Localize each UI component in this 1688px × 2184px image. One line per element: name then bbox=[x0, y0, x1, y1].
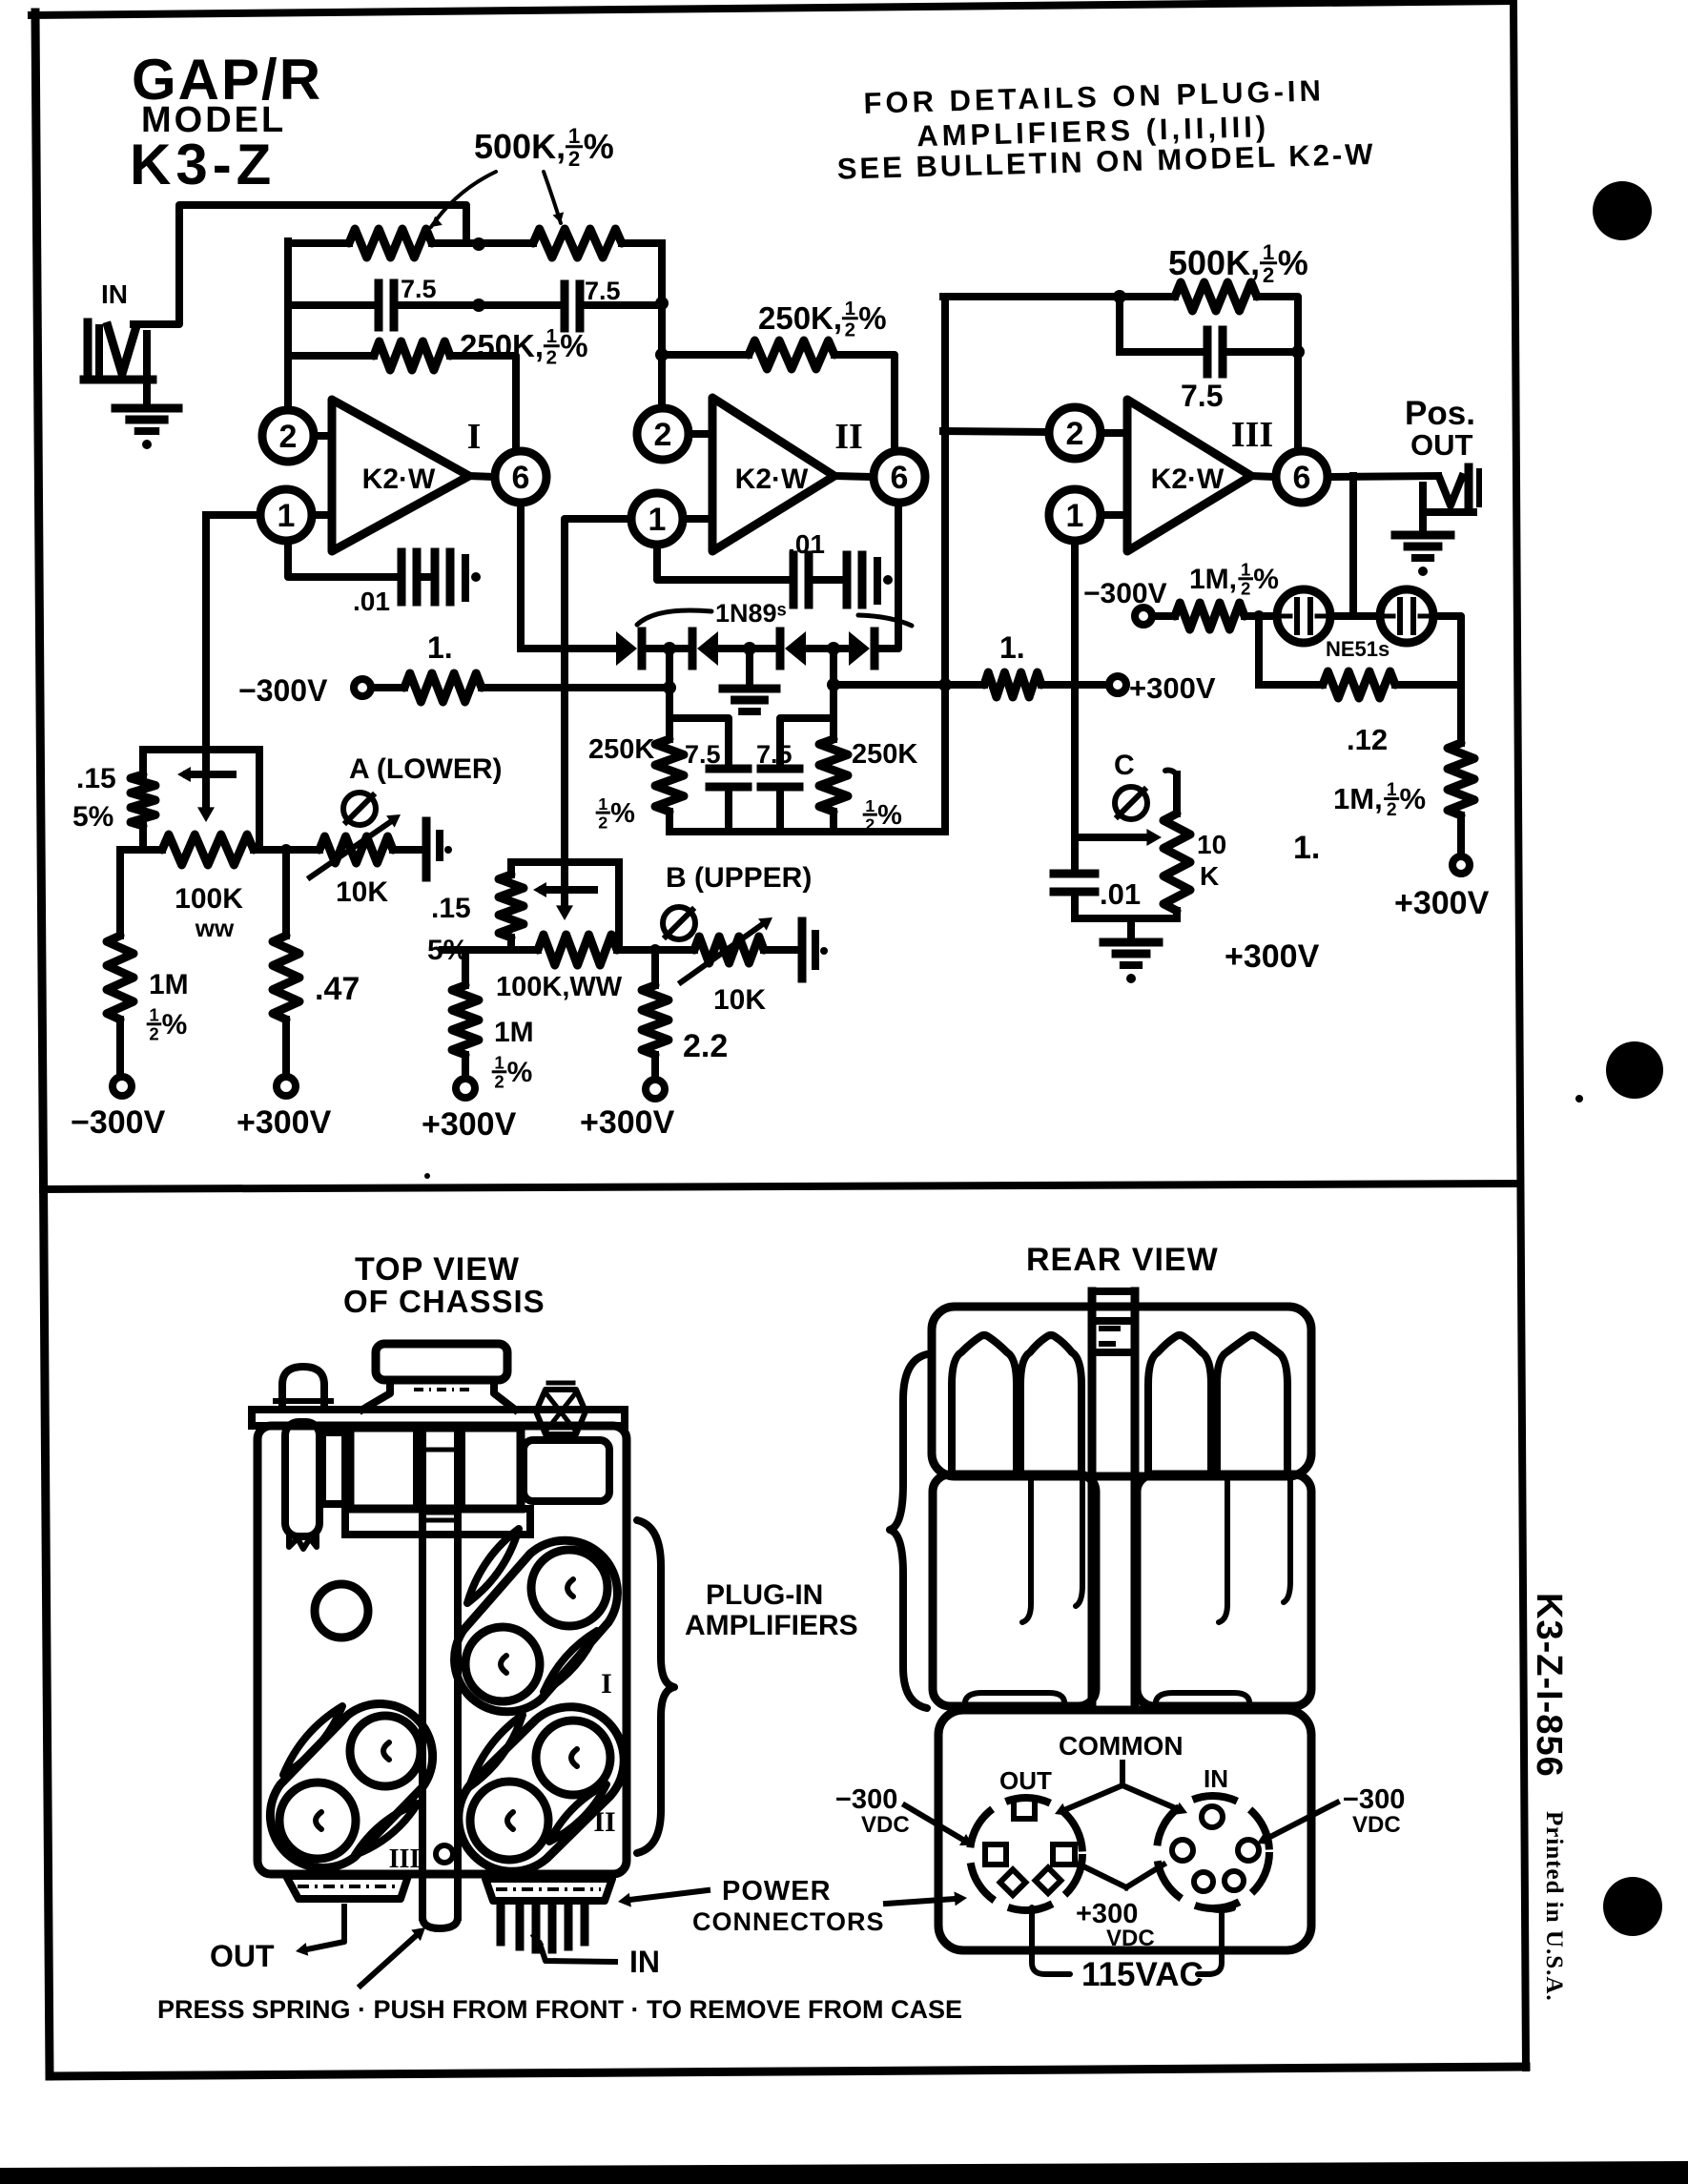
common arrow stem bbox=[1120, 1762, 1125, 1785]
wire node D down to C7 bbox=[1116, 297, 1123, 352]
wire A2 to C9 bbox=[393, 846, 422, 854]
svg-text:A (LOWER): A (LOWER) bbox=[349, 753, 503, 785]
svg-text:1: 1 bbox=[278, 498, 296, 534]
svg-text:K2·W: K2·W bbox=[1151, 464, 1225, 495]
svg-text:IN: IN bbox=[1204, 1764, 1228, 1793]
rear connector plate bbox=[938, 1710, 1311, 1950]
svg-text:.01: .01 bbox=[353, 587, 390, 616]
wire 250K row left bbox=[288, 352, 374, 360]
punch dot top right bbox=[1593, 181, 1652, 240]
capacitor C5 7.5 bbox=[761, 765, 799, 773]
chassis top plate bbox=[252, 1410, 625, 1426]
svg-text:Printed in U.S.A.: Printed in U.S.A. bbox=[1541, 1811, 1567, 2002]
swash left of 1N89s bbox=[637, 610, 711, 625]
svg-text:2: 2 bbox=[279, 419, 298, 455]
svg-text:+300V: +300V bbox=[1394, 885, 1490, 921]
wire node D to R9 bbox=[1120, 293, 1175, 300]
wire cap row left bbox=[288, 301, 376, 309]
wire R7 to +300V terminal bbox=[1041, 681, 1109, 689]
svg-text:1M,: 1M, bbox=[1333, 782, 1383, 815]
wire C5 to bottom row bbox=[776, 791, 784, 832]
svg-text:1: 1 bbox=[845, 298, 855, 319]
svg-text:−300: −300 bbox=[835, 1784, 897, 1815]
wire 1M junction down bbox=[1255, 616, 1263, 685]
chassis body bbox=[257, 1426, 627, 1874]
chassis top cap bbox=[376, 1344, 507, 1380]
scan border left edge bbox=[35, 12, 50, 2076]
svg-text:1: 1 bbox=[149, 1005, 158, 1025]
IN leader bbox=[540, 1944, 615, 1962]
diode D4 1N89 bbox=[849, 631, 870, 666]
svg-text:NE51s: NE51s bbox=[1326, 637, 1390, 661]
wire pin2 row amp III bbox=[943, 431, 1048, 432]
node A junction bbox=[472, 237, 485, 251]
terminal 2 of U3 bbox=[1101, 429, 1127, 437]
svg-text:II: II bbox=[593, 1806, 615, 1838]
wire node B to C2 bbox=[479, 301, 562, 309]
wire B-pot arrow bbox=[556, 905, 573, 920]
diode D3 1N89 bbox=[776, 631, 785, 666]
svg-text:K2·W: K2·W bbox=[735, 464, 809, 495]
wire right bus up to amp III bbox=[941, 297, 949, 832]
chassis hole circle bbox=[315, 1584, 368, 1638]
spring arrow bbox=[360, 1934, 418, 1986]
capacitor C2 7.5 bbox=[561, 284, 569, 328]
wire pot C arrow bbox=[1075, 834, 1144, 841]
wire R6 to bottom row bbox=[830, 812, 837, 832]
wire C7 to corner bbox=[1223, 348, 1298, 356]
common arrow right bbox=[1122, 1785, 1178, 1809]
wire -300V to R4 bbox=[371, 684, 404, 691]
terminal 6 of U1 bbox=[469, 476, 494, 477]
wire right bus amp I-II bbox=[658, 243, 666, 409]
wire R9 to corner down bbox=[1257, 297, 1298, 449]
svg-text:1: 1 bbox=[546, 325, 557, 347]
diode D2 1N89 bbox=[689, 631, 697, 666]
rear tube 2 bbox=[1020, 1335, 1081, 1474]
terminal +300V bottom 2 bbox=[456, 1079, 475, 1098]
svg-text:%: % bbox=[560, 328, 587, 363]
common arrow left bbox=[1064, 1785, 1122, 1810]
capacitor C8 .01 bbox=[1054, 870, 1095, 878]
terminal 1 of U1 bbox=[312, 511, 332, 519]
wire node C to R8 bbox=[662, 351, 749, 359]
B row bbox=[443, 946, 538, 954]
chassis cap neck bbox=[362, 1380, 390, 1410]
IN connector pins bbox=[497, 1902, 505, 1942]
wire R16 to row bbox=[507, 937, 515, 950]
resistor R3 250K amp I feedback bbox=[374, 341, 450, 370]
rear connector OUT circle bbox=[970, 1798, 1082, 1910]
terminal 6 of U2 bbox=[834, 476, 873, 477]
wire B loop left down bbox=[507, 862, 515, 875]
IN pin bottom 1 bbox=[1194, 1872, 1213, 1891]
svg-text:10K: 10K bbox=[713, 984, 766, 1016]
svg-text:+300V: +300V bbox=[1129, 671, 1216, 705]
junction bus at +300V row bbox=[938, 678, 952, 691]
svg-text:%: % bbox=[507, 1057, 533, 1088]
svg-text:POWER: POWER bbox=[722, 1876, 832, 1906]
terminal -300V right bbox=[1135, 608, 1152, 625]
svg-text:6: 6 bbox=[512, 460, 530, 496]
svg-text:1M: 1M bbox=[149, 969, 189, 1000]
wire bridge bottom row bbox=[669, 828, 945, 835]
wire R10 to NE1 bbox=[1245, 612, 1277, 620]
module tube lines left bbox=[1022, 1474, 1031, 1622]
svg-text:2.2: 2.2 bbox=[683, 1028, 728, 1064]
tube V1 (amp I) bbox=[531, 1550, 607, 1626]
wire output down to neon row bbox=[1349, 476, 1357, 616]
svg-text:%: % bbox=[877, 800, 902, 831]
capacitor C10 trim bbox=[798, 921, 807, 979]
tube V4 (amp II) bbox=[470, 1782, 548, 1860]
svg-text:7.5: 7.5 bbox=[685, 740, 721, 769]
wire R5 to bottom row bbox=[666, 812, 673, 832]
rear tube 4 bbox=[1217, 1335, 1287, 1474]
resistor R2 500K top right bbox=[533, 229, 622, 258]
arrow through B2 bbox=[681, 923, 764, 982]
resistor R11 .12 bbox=[1323, 671, 1395, 698]
ground at input bbox=[143, 380, 151, 404]
svg-text:.15: .15 bbox=[431, 893, 471, 924]
wire top row segment bbox=[288, 239, 349, 247]
+300 VDC V lines bbox=[1080, 1865, 1126, 1887]
wire A loop left down bbox=[139, 750, 147, 774]
junction bus at pin2 row bbox=[939, 425, 951, 437]
svg-text:7.5: 7.5 bbox=[1181, 379, 1223, 413]
svg-text:K3-Z-I-856: K3-Z-I-856 bbox=[1529, 1593, 1569, 1778]
punch dot middle right bbox=[1606, 1041, 1663, 1099]
wire D1D2 leg down bbox=[666, 655, 673, 739]
tube V5 (amp III) bbox=[350, 1716, 421, 1786]
wire A row right bbox=[254, 846, 319, 854]
svg-text:.01: .01 bbox=[1100, 877, 1141, 911]
capacitor C6 .01 amp II bbox=[790, 555, 798, 605]
svg-text:5%: 5% bbox=[72, 801, 113, 833]
terminal 1 of U2 bbox=[683, 515, 712, 523]
svg-text:1: 1 bbox=[598, 794, 607, 814]
terminal 2 of U1 bbox=[314, 432, 332, 440]
frame bottom edge bbox=[50, 2067, 1526, 2076]
svg-text:TOP VIEW: TOP VIEW bbox=[355, 1251, 520, 1288]
svg-text:2: 2 bbox=[654, 417, 672, 453]
pot A zero symbol bbox=[343, 793, 376, 825]
wire C1 to node B bbox=[394, 301, 479, 309]
wire R13 to row bbox=[139, 826, 147, 850]
arrow -300 right bbox=[1266, 1803, 1337, 1839]
wire U2 pin1 to .01 row bbox=[657, 545, 791, 580]
diode D1 1N89 bbox=[616, 631, 637, 666]
wire R3 to corner bbox=[450, 356, 516, 449]
resistor R18 2.2 bbox=[651, 950, 659, 985]
wire NE1 to NE2 bbox=[1330, 612, 1380, 620]
ground at output bbox=[1419, 512, 1427, 532]
wire C4 to bottom row bbox=[725, 791, 732, 832]
leader to R2 bbox=[544, 172, 561, 223]
svg-text:2: 2 bbox=[494, 1072, 504, 1092]
IN pin bottom 2 bbox=[1225, 1871, 1244, 1890]
svg-text:PLUG-IN: PLUG-IN bbox=[706, 1579, 823, 1611]
rear tube 1 bbox=[952, 1335, 1017, 1474]
junction D3-D4 bbox=[827, 642, 840, 655]
B loop top bar bbox=[511, 858, 619, 866]
svg-text:10: 10 bbox=[1197, 830, 1226, 859]
svg-text:1: 1 bbox=[494, 1053, 504, 1073]
tube V3 (amp II) bbox=[536, 1720, 610, 1795]
junction at D3D4 leg bbox=[827, 678, 840, 691]
wire A loop right down bbox=[256, 750, 263, 850]
spring rod bbox=[285, 1422, 319, 1536]
resistor R10 1M half pct bbox=[1175, 603, 1245, 629]
svg-text:.01: .01 bbox=[788, 529, 825, 559]
ground below C pot bbox=[1127, 918, 1135, 938]
svg-text:C: C bbox=[1114, 750, 1135, 781]
resistor R4 1meg (-300V feed) bbox=[404, 673, 482, 702]
rear module right bbox=[1137, 1474, 1311, 1706]
svg-text:2: 2 bbox=[1241, 579, 1250, 599]
svg-text:COMMON: COMMON bbox=[1059, 1731, 1184, 1761]
svg-text:.12: .12 bbox=[1347, 723, 1388, 756]
resistor R7 1meg (+300V feed) bbox=[984, 672, 1041, 697]
svg-text:OUT: OUT bbox=[210, 1939, 275, 1973]
svg-text:+300V: +300V bbox=[580, 1104, 675, 1141]
capacitor C4 7.5 bbox=[710, 765, 748, 773]
wiper arrow A (left) bbox=[187, 771, 233, 778]
svg-text:IN: IN bbox=[629, 1945, 660, 1979]
resistor R6 250K half pct bbox=[819, 739, 848, 812]
svg-text:−300: −300 bbox=[1343, 1784, 1405, 1815]
wire to R10 bbox=[1152, 612, 1175, 620]
tube cluster I outline bbox=[455, 1540, 618, 1712]
wire R11 to right leg bbox=[1395, 681, 1461, 689]
svg-text:.15: .15 bbox=[76, 763, 116, 794]
svg-text:1: 1 bbox=[1387, 780, 1397, 800]
wire C8 bottom row bbox=[1071, 896, 1079, 918]
resistor R5 250K half pct bbox=[655, 739, 684, 812]
speck near divider bbox=[424, 1173, 430, 1179]
svg-text:2: 2 bbox=[1387, 800, 1397, 820]
junction at 1M output bbox=[1253, 610, 1265, 622]
svg-text:ww: ww bbox=[195, 914, 235, 942]
IN socket plate bbox=[485, 1879, 612, 1901]
clip bar hole bbox=[436, 1845, 453, 1863]
wire left bus amp I bbox=[284, 241, 292, 410]
svg-text:7.5: 7.5 bbox=[585, 277, 621, 305]
junction -300V row to diode leg bbox=[663, 681, 676, 694]
svg-text:%: % bbox=[1278, 243, 1308, 282]
wire U1 pin6 down bbox=[517, 504, 525, 649]
OUT leader arrow bbox=[307, 1906, 344, 1949]
wire to D2 bbox=[669, 645, 692, 652]
svg-text:Pos.: Pos. bbox=[1405, 395, 1475, 432]
junction A row at R15 bbox=[280, 844, 292, 855]
svg-text:III: III bbox=[1231, 415, 1273, 455]
divider line between schematic and views bbox=[43, 1184, 1518, 1189]
op-amp U1 K2-W I bbox=[332, 400, 469, 551]
svg-text:−300V: −300V bbox=[71, 1104, 166, 1141]
arrow power to top view bbox=[629, 1890, 708, 1900]
svg-text:+300V: +300V bbox=[422, 1106, 517, 1143]
IN pin left bbox=[1172, 1840, 1193, 1861]
svg-text:VDC: VDC bbox=[1106, 1926, 1155, 1951]
svg-text:1.: 1. bbox=[999, 630, 1025, 665]
wire C7 row bbox=[1120, 348, 1204, 356]
svg-text:1N89ˢ: 1N89ˢ bbox=[715, 599, 787, 628]
tube V2 (amp I) bbox=[465, 1627, 540, 1701]
svg-text:PRESS SPRING · PUSH FROM FRONT: PRESS SPRING · PUSH FROM FRONT · TO REMO… bbox=[157, 1995, 962, 2024]
svg-text:%: % bbox=[1253, 564, 1279, 595]
wire R1 to node A bbox=[432, 239, 479, 247]
terminal +300V bottom 1 bbox=[277, 1077, 296, 1096]
wire pin6 to D1 bbox=[521, 645, 616, 652]
wiper arrow B (left) bbox=[543, 886, 594, 894]
frame right edge bbox=[1513, 1, 1526, 2068]
junction diode center bbox=[743, 642, 756, 655]
resistor R14 1M half pct bbox=[116, 850, 124, 936]
terminal 6 of U3 bbox=[1251, 476, 1274, 477]
junction D1-D2 bbox=[663, 642, 676, 655]
pot C zero symbol bbox=[1115, 787, 1147, 819]
svg-text:2: 2 bbox=[1263, 263, 1274, 287]
punch dot bottom right bbox=[1603, 1877, 1662, 1936]
svg-text:250K,: 250K, bbox=[758, 300, 842, 336]
swash right of 1N89s bbox=[858, 615, 912, 626]
svg-text:%: % bbox=[584, 127, 614, 166]
svg-text:500K,: 500K, bbox=[1168, 243, 1260, 282]
svg-text:IN: IN bbox=[101, 279, 128, 309]
svg-text:+300V: +300V bbox=[1225, 938, 1320, 975]
rear connector IN circle bbox=[1157, 1796, 1269, 1908]
terminal +300V mid bbox=[1109, 676, 1126, 693]
svg-text:100K,WW: 100K,WW bbox=[496, 972, 623, 1002]
tube cluster II outline bbox=[459, 1707, 624, 1872]
wire U2 pin1 to B-pot bus bbox=[565, 519, 630, 908]
svg-text:10K: 10K bbox=[336, 876, 388, 908]
svg-text:1: 1 bbox=[1241, 560, 1250, 580]
svg-text:+300V: +300V bbox=[237, 1104, 332, 1141]
output jack J2 bbox=[1439, 477, 1462, 505]
bottom scan black band bbox=[0, 2161, 1688, 2184]
resistor R17 1M half pct bbox=[462, 950, 469, 985]
terminal 2 of U2 bbox=[689, 430, 712, 438]
rheostat A2 10K bbox=[319, 836, 393, 863]
clip bar bbox=[419, 1426, 426, 1917]
potentiometer B 100K WW bbox=[538, 935, 617, 965]
svg-text:1.: 1. bbox=[427, 630, 453, 665]
svg-text:OUT: OUT bbox=[1410, 428, 1473, 462]
op-amp U3 K2-W III bbox=[1127, 400, 1251, 551]
neon lamp NE1 NE51 bbox=[1277, 589, 1330, 643]
resistor R13 .15 5pct bbox=[131, 774, 155, 826]
OUT socket plate bbox=[286, 1876, 408, 1899]
rear tube 3 bbox=[1148, 1335, 1211, 1474]
neon lamp NE2 NE51 bbox=[1380, 589, 1433, 643]
svg-text:I: I bbox=[467, 417, 482, 457]
terminal +300V bottom 3 bbox=[646, 1080, 665, 1099]
wire bus corner to node D bbox=[943, 293, 1120, 300]
potentiometer A 100K WW bbox=[162, 834, 254, 865]
wire R2 to right bus bbox=[622, 239, 662, 247]
node D junction bbox=[1113, 290, 1126, 303]
stub to C4 bbox=[669, 718, 729, 764]
svg-text:OF CHASSIS: OF CHASSIS bbox=[343, 1284, 546, 1319]
resistor R15 .47 bbox=[282, 850, 290, 936]
svg-text:K2·W: K2·W bbox=[362, 464, 436, 495]
IN pin right bbox=[1238, 1840, 1259, 1861]
svg-text:2: 2 bbox=[546, 346, 557, 368]
svg-text:VDC: VDC bbox=[861, 1812, 910, 1838]
svg-text:1: 1 bbox=[1263, 240, 1274, 264]
resistor R1 500K top left bbox=[349, 229, 432, 258]
svg-text:VDC: VDC bbox=[1352, 1812, 1401, 1838]
svg-text:REAR VIEW: REAR VIEW bbox=[1026, 1242, 1219, 1278]
svg-text:2: 2 bbox=[568, 147, 580, 171]
brace right of top view bbox=[637, 1520, 674, 1853]
wire B2 to C10 bbox=[764, 946, 799, 954]
module tube lines right bbox=[1219, 1474, 1227, 1622]
junction B row at R18 bbox=[649, 944, 661, 956]
svg-text:−300V: −300V bbox=[238, 673, 328, 708]
rear case top bbox=[932, 1307, 1311, 1476]
leader to R1 bbox=[431, 172, 496, 227]
svg-text:II: II bbox=[834, 417, 863, 457]
svg-text:1: 1 bbox=[865, 796, 875, 815]
115VAC left line bbox=[1032, 1907, 1070, 1974]
svg-text:%: % bbox=[162, 1009, 188, 1040]
wire R8 to U2 pin6 leg bbox=[834, 355, 895, 449]
svg-text:6: 6 bbox=[891, 460, 909, 496]
input jack J1 bbox=[84, 322, 93, 380]
resistor R12 1M half pct vertical bbox=[1448, 743, 1474, 815]
frame top edge bbox=[31, 1, 1512, 15]
svg-text:250K: 250K bbox=[852, 739, 917, 770]
rear module left bbox=[933, 1474, 1096, 1706]
A loop top bar bbox=[143, 746, 259, 753]
svg-text:2: 2 bbox=[845, 319, 855, 340]
svg-text:1: 1 bbox=[648, 502, 667, 538]
pot B zero symbol bbox=[663, 907, 695, 939]
capacitor C3 .01 amp I bbox=[398, 552, 406, 602]
wire D4 to amp II output leg bbox=[875, 505, 898, 649]
svg-text:%: % bbox=[858, 300, 886, 336]
wire B loop right down bbox=[615, 862, 623, 950]
svg-text:I: I bbox=[601, 1668, 612, 1700]
header block tilt group bbox=[834, 72, 1375, 186]
wire U3 pin6 to output jack bbox=[1329, 476, 1438, 477]
trimmer stub amp II bbox=[874, 561, 881, 601]
terminal -300V left bbox=[354, 679, 371, 696]
wire C2 to right bus bbox=[580, 301, 662, 309]
svg-text:B (UPPER): B (UPPER) bbox=[666, 862, 812, 894]
ground at diode center bbox=[746, 649, 753, 684]
tube cluster III outline bbox=[270, 1704, 432, 1868]
stub to C5 bbox=[780, 718, 834, 764]
rheostat B2 10K bbox=[694, 937, 764, 963]
svg-text:6: 6 bbox=[1293, 460, 1311, 496]
wire to D4 bbox=[834, 645, 849, 652]
capacitor C9 trim bbox=[422, 821, 431, 877]
tube V6 (amp III) bbox=[279, 1782, 356, 1859]
cap neck dash-dot bbox=[414, 1388, 474, 1391]
svg-text:−300V: −300V bbox=[1083, 578, 1167, 609]
svg-text:.47: .47 bbox=[315, 971, 360, 1007]
IN pin common bbox=[1202, 1806, 1223, 1827]
svg-text:2: 2 bbox=[1066, 416, 1084, 452]
junction C7 right bbox=[1291, 345, 1305, 359]
transformer lip bbox=[345, 1509, 530, 1535]
speck near middle right bbox=[1575, 1095, 1583, 1102]
resistor R9 500K amp III bbox=[1175, 282, 1257, 311]
